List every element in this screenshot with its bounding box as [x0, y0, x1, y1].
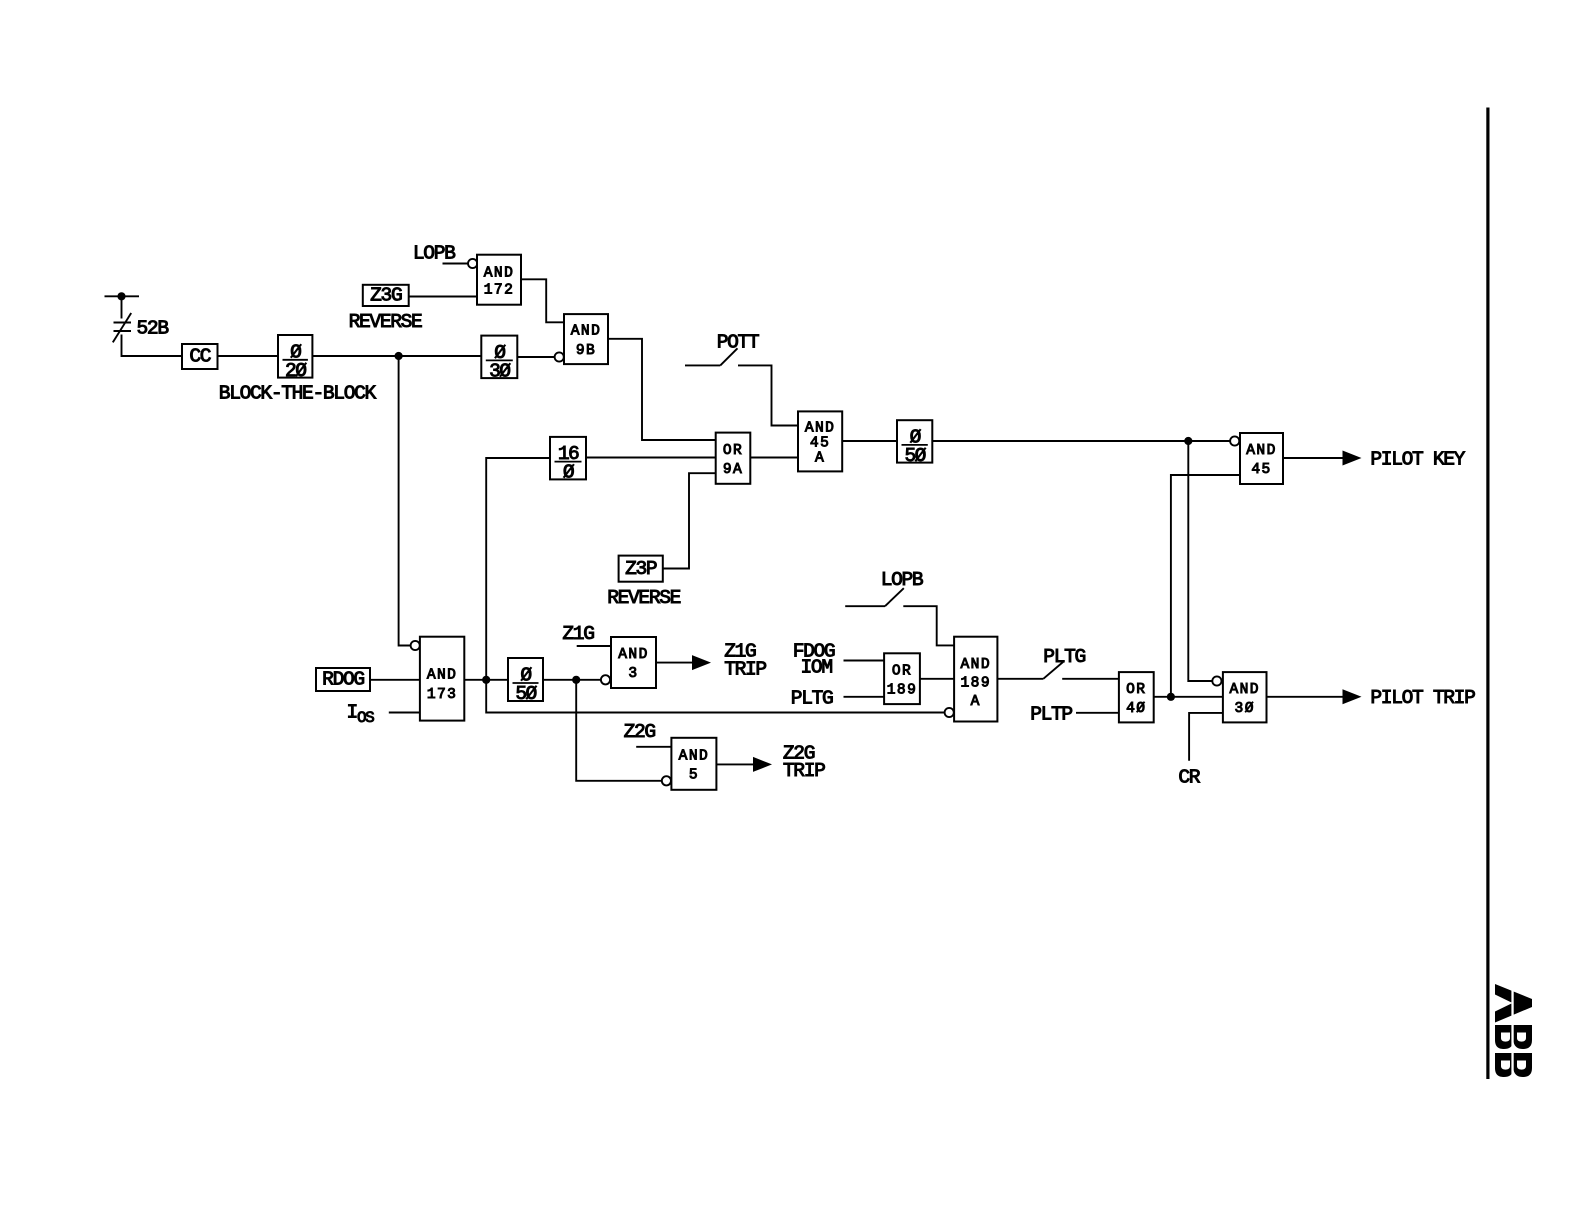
inverted input bubble AND9B [555, 352, 564, 361]
wire junction D down to AND5 bubble [576, 680, 662, 781]
switch POTT [685, 364, 720, 366]
svg-text:PLTG: PLTG [1043, 646, 1085, 668]
switch LOPB [845, 605, 885, 607]
timer 16/0 [550, 437, 586, 484]
svg-text:AND: AND [427, 667, 457, 683]
svg-text:Z2G: Z2G [624, 721, 656, 743]
inverted input bubble AND45 [1230, 436, 1239, 445]
svg-text:AND: AND [961, 657, 991, 673]
wire PLTG to OR189 [844, 696, 885, 698]
box Z3P [619, 556, 663, 582]
junction dot 52B node [117, 292, 125, 300]
inverted input bubble AND189A [945, 708, 954, 717]
svg-text:RDOG: RDOG [322, 669, 364, 691]
svg-text:AND: AND [679, 749, 709, 765]
breaker contact 52B tick 2 [114, 330, 132, 332]
inverted input bubble AND5 [662, 776, 671, 785]
op AND 5 [671, 738, 716, 790]
svg-text:3: 3 [628, 666, 638, 682]
wire PLTP to OR40 [1076, 712, 1119, 714]
svg-text:BLOCK-THE-BLOCK: BLOCK-THE-BLOCK [219, 383, 377, 405]
junction dot C [482, 676, 490, 684]
switch PLTG [1043, 662, 1063, 679]
timer 0/30 [481, 336, 517, 383]
op AND 30 [1223, 672, 1267, 722]
op AND 9B [564, 314, 608, 364]
timer 0/50 upper [897, 420, 932, 467]
svg-text:AND: AND [484, 265, 514, 281]
svg-text:PILOT TRIP: PILOT TRIP [1370, 687, 1475, 709]
junction dot A [395, 352, 403, 360]
junction dot B [1184, 437, 1192, 445]
svg-text:AND: AND [805, 421, 835, 437]
svg-text:AND: AND [1229, 682, 1259, 698]
svg-text:PLTG: PLTG [791, 688, 833, 710]
wire Z3P to OR9A [663, 473, 716, 568]
wire AND30 output [1267, 696, 1345, 698]
wire Z1G to AND3 [577, 645, 611, 647]
wire I OS to AND173 [389, 712, 420, 714]
wire vertical bus to 16/0 and AND189A [486, 458, 944, 713]
wire 0/30 to AND9B bubble [517, 356, 554, 358]
op OR 9A [716, 433, 751, 484]
svg-text:2Ø: 2Ø [285, 360, 307, 382]
wire AND189A output to PLTG switch [997, 678, 1043, 680]
op AND 3 [611, 637, 656, 688]
wire AND173 output to 0/50 [464, 679, 508, 681]
inverted input bubble AND172 [468, 259, 477, 268]
svg-text:173: 173 [427, 687, 457, 703]
svg-text:AND: AND [618, 647, 648, 663]
svg-text:9A: 9A [723, 462, 743, 478]
timer 0/20 [278, 335, 312, 382]
svg-text:OS: OS [357, 709, 374, 727]
svg-text:5Ø: 5Ø [515, 683, 537, 705]
svg-text:A: A [815, 451, 825, 467]
svg-text:CC: CC [189, 346, 210, 368]
border bar right [1486, 108, 1489, 1080]
svg-text:3Ø: 3Ø [489, 360, 511, 382]
svg-text:REVERSE: REVERSE [607, 587, 680, 609]
wire AND45A to 0/50 [842, 440, 897, 442]
wire LOPB switch to AND189A [903, 606, 954, 645]
svg-text:IOM: IOM [801, 656, 833, 678]
svg-text:4Ø: 4Ø [1126, 701, 1146, 717]
op OR 40 [1119, 672, 1154, 722]
svg-text:189: 189 [961, 675, 991, 691]
svg-text:3Ø: 3Ø [1235, 701, 1255, 717]
svg-text:POTT: POTT [717, 332, 760, 354]
inverted input bubble AND173 [411, 641, 420, 650]
wire Z3G to AND172 [409, 296, 477, 298]
inverted input bubble AND30 [1212, 676, 1221, 685]
wire AND172 output to AND9B [521, 279, 564, 322]
timer 0/50 lower [508, 658, 543, 705]
svg-text:Z3P: Z3P [625, 558, 657, 580]
junction dot D [572, 676, 580, 684]
box Z3G [363, 285, 409, 307]
svg-text:5Ø: 5Ø [904, 445, 926, 467]
wire 0/20 to 0/30 [312, 355, 481, 357]
svg-text:OR: OR [892, 663, 912, 679]
wire AND45 output [1283, 457, 1344, 459]
box CC [182, 344, 218, 369]
op OR 189 [884, 653, 920, 704]
svg-text:REVERSE: REVERSE [349, 311, 422, 333]
wire 0/50 to AND45 bubble [932, 440, 1230, 442]
wire 52B lower stub to CC [122, 335, 183, 357]
wire FDOG to OR189 [844, 660, 885, 662]
svg-text:5: 5 [689, 768, 699, 784]
inverted input bubble AND3 [601, 675, 610, 684]
wire AND3 output [656, 662, 692, 664]
svg-text:Z1G: Z1G [562, 623, 594, 645]
wire POTT to AND45A [738, 365, 798, 425]
op AND 173 [420, 637, 464, 721]
wire OR189 output to AND189A [920, 678, 954, 680]
wire 52B contact upper stub [121, 296, 123, 318]
svg-text:OR: OR [723, 443, 743, 459]
wire 0/50 to AND3 bubble [543, 679, 601, 681]
op AND 172 [477, 255, 521, 305]
svg-text:A: A [971, 694, 981, 710]
breaker contact 52B tick 1 [114, 322, 132, 324]
arrow Z1G TRIP [692, 655, 711, 670]
svg-text:PILOT KEY: PILOT KEY [1370, 449, 1465, 471]
svg-text:PLTP: PLTP [1030, 704, 1072, 726]
junction dot E [1167, 693, 1175, 701]
wire CC to timer 0/20 [218, 355, 279, 357]
wire OR40 output to AND30 [1154, 696, 1223, 698]
wire OR9A output to AND45A [750, 457, 798, 459]
logo ABB [1495, 982, 1532, 1080]
wire OR40 junction up to AND45 second input [1171, 475, 1240, 697]
svg-text:I: I [347, 702, 357, 724]
op AND 45 [1240, 433, 1283, 484]
box RDOG [316, 668, 370, 691]
svg-text:CR: CR [1178, 767, 1200, 789]
svg-text:TRIP: TRIP [783, 760, 825, 782]
wire 16/0 output to OR9A [586, 457, 716, 459]
wire AND5 output [716, 763, 753, 765]
wire RDOG to AND173 [370, 679, 420, 681]
arrow PILOT KEY [1343, 451, 1362, 466]
wire CR to AND30 [1189, 713, 1223, 761]
svg-text:172: 172 [484, 282, 514, 298]
svg-text:9B: 9B [576, 343, 596, 359]
svg-text:TRIP: TRIP [724, 658, 766, 680]
wire junction A down to AND173 input [399, 356, 411, 646]
op AND 189 A [954, 637, 997, 722]
svg-text:OR: OR [1126, 682, 1146, 698]
arrow Z2G TRIP [753, 757, 772, 772]
wire Z2G to AND5 [636, 746, 671, 748]
arrow PILOT TRIP [1343, 689, 1362, 704]
svg-text:45: 45 [1251, 462, 1271, 478]
svg-text:AND: AND [571, 324, 601, 340]
node: 52B source tick [105, 295, 140, 297]
wire junction B down to AND30 bubble [1188, 441, 1212, 681]
breaker contact 52B slash [113, 313, 131, 342]
svg-text:45: 45 [810, 436, 830, 452]
wire AND9B output to OR9A [608, 339, 716, 440]
svg-text:52B: 52B [137, 318, 170, 340]
svg-text:LOPB: LOPB [881, 569, 924, 591]
svg-text:189: 189 [887, 682, 917, 698]
svg-text:LOPB: LOPB [413, 243, 456, 265]
svg-text:AND: AND [1246, 443, 1276, 459]
wire PLTG switch to OR40 [1062, 678, 1119, 680]
op AND 45 A [798, 411, 842, 471]
wire LOPB to AND172 bubble [443, 263, 468, 265]
svg-text:Z3G: Z3G [370, 285, 402, 307]
